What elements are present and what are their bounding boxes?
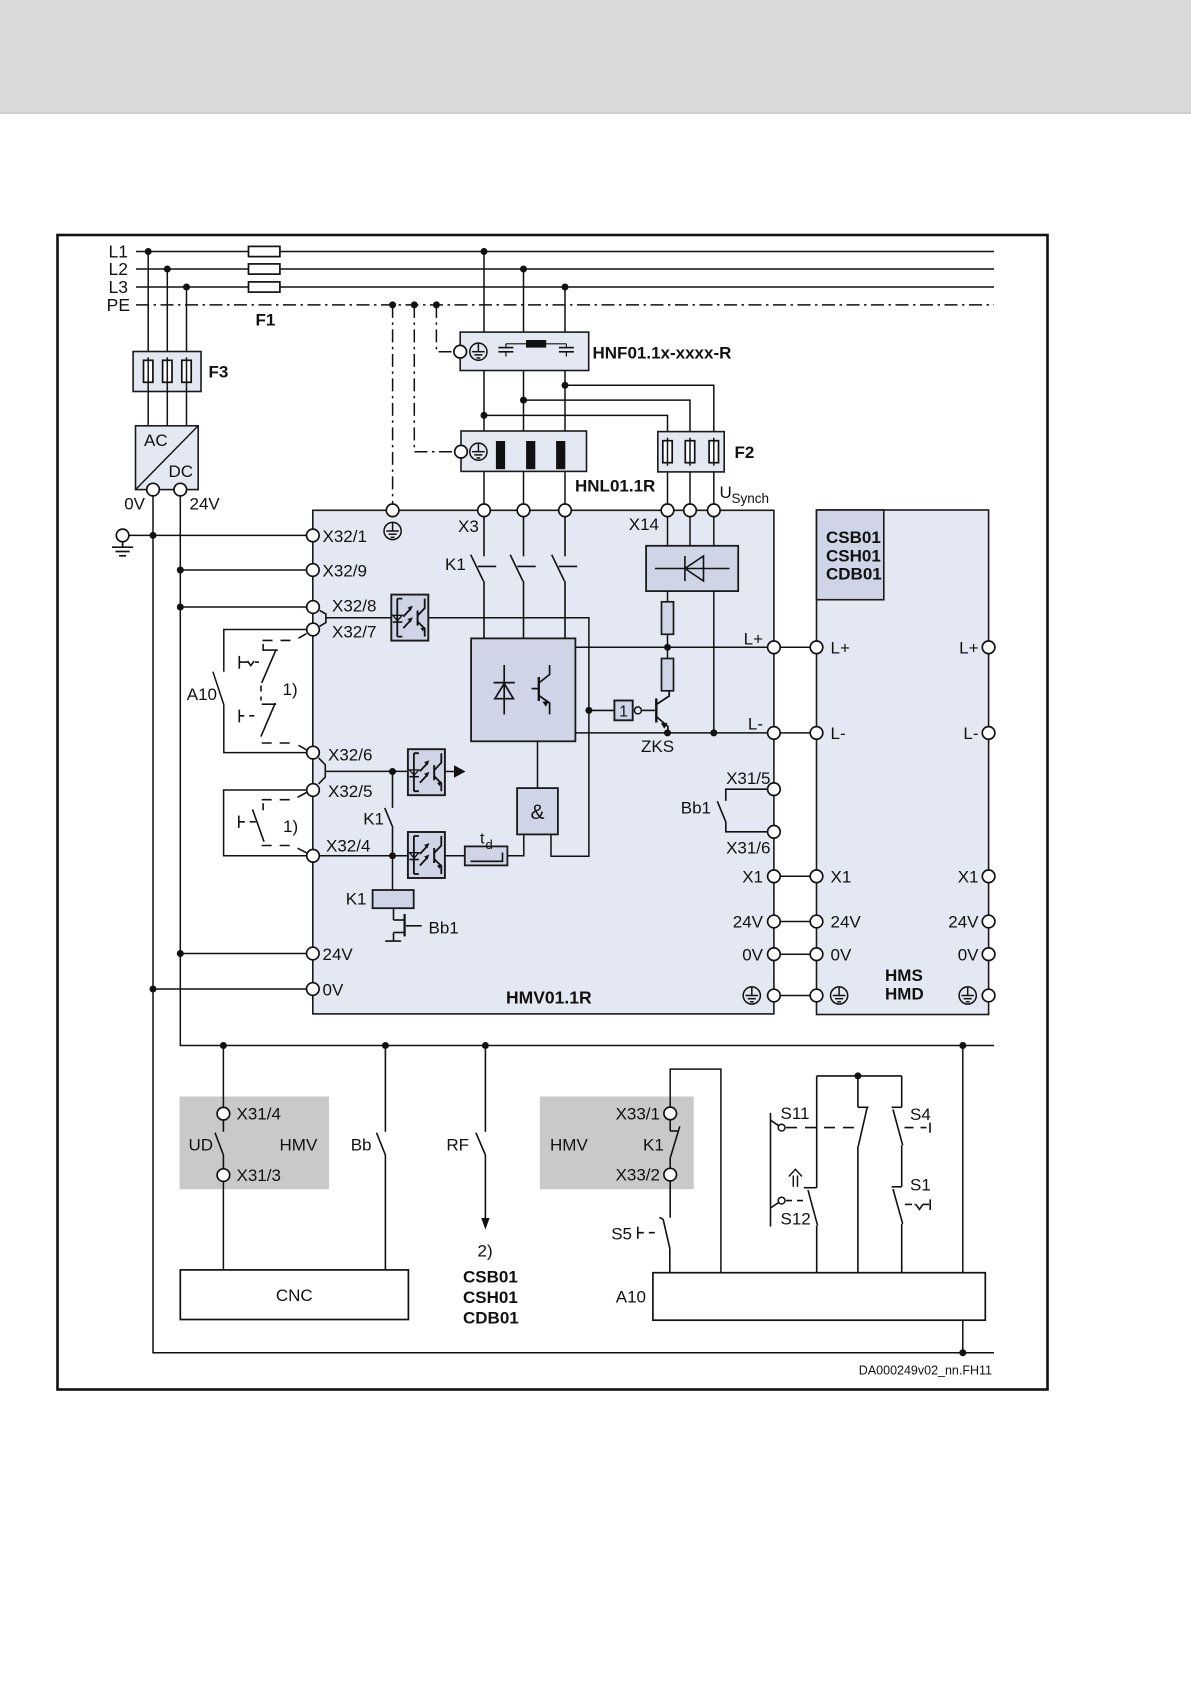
wire 24V rail — [180, 496, 994, 1046]
terminal X3-3 — [559, 504, 572, 517]
svg-text:X31/5: X31/5 — [726, 769, 770, 788]
svg-text:0V: 0V — [742, 946, 763, 965]
svg-text:X1: X1 — [831, 868, 852, 887]
wire merge to opto2 — [325, 770, 408, 772]
terminal X14-2 — [684, 504, 697, 517]
junction 0V wire — [150, 986, 157, 993]
svg-text:CDB01: CDB01 — [463, 1309, 519, 1328]
optocoupler input 3 — [408, 832, 445, 878]
junction 24V wire — [177, 950, 184, 957]
svg-text:L-: L- — [748, 715, 763, 734]
svg-text:X1: X1 — [742, 868, 763, 887]
junction L3-right — [562, 284, 569, 291]
svg-text:1: 1 — [619, 704, 628, 721]
terminal X32/1 — [307, 529, 320, 542]
wire L3 drop to F3 — [186, 287, 188, 358]
wire A10 to bottom rail — [962, 1320, 964, 1353]
chevron X32/8+7 merge — [320, 610, 326, 626]
svg-text:PE: PE — [107, 295, 130, 315]
svg-text:&: & — [530, 801, 544, 824]
optocoupler input 1 — [391, 595, 428, 641]
S11 dashed link — [786, 1127, 860, 1129]
fuse F1 pole 1 — [249, 246, 280, 256]
terminal 0V of AC/DC — [147, 483, 160, 496]
wire L1 rail — [136, 251, 994, 253]
junction L2-left — [164, 266, 171, 273]
junction rail Bb — [382, 1042, 389, 1049]
terminal chassis ground — [116, 529, 129, 542]
svg-text:CSH01: CSH01 — [826, 546, 881, 565]
svg-text:Bb1: Bb1 — [429, 919, 459, 938]
contact S1 — [892, 1187, 903, 1273]
svg-text:0V: 0V — [831, 946, 852, 965]
terminal 0V HMV right — [768, 948, 781, 961]
junction 24V X32/9 — [177, 567, 184, 574]
terminal X32/5 — [307, 784, 320, 797]
braking resistor chain: X14 rectifier box — [646, 546, 738, 591]
wire to gate 1 — [589, 709, 615, 711]
wire merge to opto1 — [326, 617, 391, 619]
junction PE-3 — [433, 301, 440, 308]
junction 24V X32/8 — [177, 604, 184, 611]
contactor K1 pole 3 — [552, 517, 578, 639]
terminal X32/8 — [307, 601, 320, 614]
svg-text:X32/7: X32/7 — [332, 623, 376, 642]
arrow up symbol — [789, 1169, 802, 1187]
junction S-group — [854, 1072, 861, 1079]
svg-text:CSB01: CSB01 — [463, 1268, 518, 1287]
resistor R-bottom — [662, 659, 674, 691]
wire L1 vertical to X3 — [483, 252, 485, 505]
svg-text:0V: 0V — [323, 981, 344, 1000]
terminal X14-1 — [661, 504, 674, 517]
PE symbol HMV right — [743, 987, 760, 1004]
middle contact (S11 linked) — [858, 1076, 869, 1273]
wire gate to ZKS base — [641, 709, 655, 711]
fuse block F3 — [133, 352, 201, 392]
svg-text:CDB01: CDB01 — [826, 565, 882, 584]
S5 actuation dashes — [637, 1227, 639, 1239]
diode in X14 box — [655, 556, 730, 581]
wires X14 terminals into box — [667, 517, 669, 546]
terminal 0V HMV left — [307, 983, 320, 996]
S12 dashed link — [786, 1200, 807, 1202]
wire PE drop to HNL (dash-dot) — [414, 305, 454, 452]
optocoupler input 2 — [408, 749, 445, 795]
svg-text:X32/1: X32/1 — [323, 527, 367, 546]
svg-text:S1: S1 — [910, 1176, 931, 1195]
svg-text:F1: F1 — [256, 311, 276, 330]
wire PE drop to HMV PE terminal (dash-dot) — [392, 305, 394, 504]
delay element td — [465, 846, 508, 865]
terminal X1 CSB left — [810, 870, 823, 883]
svg-text:L+: L+ — [831, 639, 850, 658]
terminal 24V HMV right — [768, 915, 781, 928]
transistor ZKS — [656, 691, 669, 733]
left branch vertical — [816, 1076, 818, 1188]
wire X32/8 — [180, 606, 306, 608]
svg-text:24V: 24V — [948, 913, 979, 932]
wire L2 vertical to X3 — [523, 269, 525, 504]
svg-text:HMS: HMS — [885, 966, 923, 985]
svg-text:K1: K1 — [643, 1136, 664, 1155]
svg-text:L+: L+ — [744, 630, 763, 649]
svg-text:CSB01: CSB01 — [826, 528, 881, 547]
svg-text:HMV: HMV — [280, 1136, 318, 1155]
drive controllers block CSB/CSH/CDB — [817, 510, 989, 1015]
filter internals — [498, 340, 574, 357]
PE symbol in HNL — [470, 443, 487, 460]
svg-text:K1: K1 — [346, 890, 367, 909]
terminal X32/4 — [307, 850, 320, 863]
junction rail UD — [220, 1042, 227, 1049]
svg-text:X32/8: X32/8 — [332, 597, 376, 616]
wire right loop — [962, 1046, 964, 1273]
junction tap L3 — [562, 382, 569, 389]
S11/S12 actuator bar — [771, 1113, 779, 1227]
junction K1 branch bottom — [389, 852, 396, 859]
svg-text:X32/9: X32/9 — [323, 562, 367, 581]
svg-text:ZKS: ZKS — [641, 737, 674, 756]
PE symbol below top terminal — [384, 522, 401, 539]
mains choke HNL01.1R — [461, 431, 587, 471]
junction tap L1 — [481, 412, 488, 419]
svg-text:HMV01.1R: HMV01.1R — [506, 988, 592, 1008]
svg-text:CNC: CNC — [276, 1286, 313, 1305]
svg-text:24V: 24V — [831, 913, 862, 932]
wire PE drop to HNF (dash-dot) — [436, 305, 453, 352]
chevron X32/6+5 merge — [319, 758, 326, 784]
svg-text:S5: S5 — [611, 1225, 632, 1244]
svg-text:L+: L+ — [959, 639, 978, 658]
PE symbol in HNF — [470, 343, 487, 360]
junction bottom rail — [959, 1349, 966, 1356]
terminal X33/1 — [664, 1107, 677, 1120]
wire PE rail (dash-dot) — [136, 304, 994, 306]
outer frame — [58, 235, 1048, 1390]
svg-text:X32/5: X32/5 — [328, 782, 372, 801]
svg-text:X32/4: X32/4 — [326, 837, 370, 856]
junction tap L2 — [520, 397, 527, 404]
AND gate — [517, 788, 558, 834]
svg-text:F3: F3 — [209, 363, 229, 382]
wire opto1 out to AND gate — [428, 618, 589, 857]
header box CSB01 CSH01 CDB01 — [817, 510, 884, 600]
Bb1 contact X31/5-X31/6 — [717, 789, 767, 832]
svg-text:X33/1: X33/1 — [616, 1105, 660, 1124]
junction L2-right — [520, 266, 527, 273]
junction rail right — [959, 1042, 966, 1049]
wire tap L2 to F2 — [524, 400, 691, 432]
safety switch group top wire — [817, 1075, 902, 1077]
transistor Bb1 (FET) — [385, 908, 422, 941]
svg-text:24V: 24V — [323, 945, 354, 964]
terminal X31/4 — [217, 1107, 230, 1120]
terminal X32/9 — [307, 564, 320, 577]
svg-text:2): 2) — [478, 1242, 493, 1261]
wire AND to rectifier — [537, 741, 539, 788]
wire F2 to X14 x3 — [667, 472, 669, 504]
svg-text:U: U — [720, 483, 732, 502]
terminal X3-1 — [478, 504, 491, 517]
svg-text:CSH01: CSH01 — [463, 1288, 518, 1307]
contactor K1 pole 1 — [471, 517, 497, 639]
svg-text:L3: L3 — [109, 277, 128, 297]
junction gate input — [585, 707, 592, 714]
svg-text:DC: DC — [169, 462, 194, 481]
right branch vertical — [901, 1076, 903, 1107]
terminal 0V CSB right — [982, 948, 995, 961]
svg-text:L-: L- — [831, 724, 846, 743]
svg-text:X1: X1 — [958, 868, 979, 887]
wire X31/3 to CNC — [222, 1181, 224, 1270]
junction K1 branch top — [389, 768, 396, 775]
terminal HNF PE — [454, 345, 467, 358]
diode symbol — [494, 665, 515, 714]
terminal 24V HMV left — [307, 947, 320, 960]
upper dashed limit switch 1 — [239, 634, 306, 701]
IGBT symbol — [532, 665, 550, 714]
contact dot S11 — [778, 1124, 785, 1131]
svg-text:HMD: HMD — [885, 985, 924, 1004]
wire L1 drop to F3 — [147, 252, 149, 359]
wire X32/4 to opto3 — [319, 855, 408, 857]
ground symbol — [112, 542, 133, 556]
junction PE-2 — [411, 301, 418, 308]
svg-text:DA000249v02_nn.FH11: DA000249v02_nn.FH11 — [859, 1364, 992, 1378]
terminal PE top — [386, 504, 399, 517]
top gray header band — [0, 0, 1191, 112]
wire L2 rail — [136, 268, 994, 270]
terminal PE CSB right — [982, 989, 995, 1002]
svg-text:A10: A10 — [187, 685, 217, 704]
opto2 output arrow — [445, 771, 455, 773]
svg-text:X31/4: X31/4 — [237, 1105, 281, 1124]
wire X14 right leg to L- — [713, 591, 715, 733]
contact S12 blade — [804, 1188, 818, 1273]
svg-text:24V: 24V — [190, 495, 221, 514]
svg-text:F2: F2 — [735, 443, 755, 462]
terminal X31/6 — [768, 826, 781, 839]
svg-text:1): 1) — [283, 680, 298, 699]
junction L+ tap — [664, 644, 671, 651]
lower dashed switch — [239, 793, 307, 853]
contact S4 — [892, 1107, 903, 1187]
svg-text:X3: X3 — [458, 517, 479, 536]
wire L3 rail — [136, 286, 994, 288]
svg-text:HNF01.1x-xxxx-R: HNF01.1x-xxxx-R — [593, 344, 732, 363]
contactor K1 pole 2 — [510, 517, 536, 639]
svg-text:UD: UD — [189, 1136, 214, 1155]
wire R-top to L+ — [667, 634, 669, 658]
connector wires HMV to CSB — [780, 647, 810, 995]
svg-text:S11: S11 — [781, 1104, 810, 1123]
box CNC — [180, 1270, 408, 1320]
contact dot S12 — [778, 1197, 785, 1204]
junction PE-1 — [389, 301, 396, 308]
svg-text:0V: 0V — [124, 495, 145, 514]
wire L+ rail — [575, 646, 767, 648]
terminal X31/3 — [217, 1169, 230, 1182]
junction ZKS emitter on L- — [664, 729, 671, 736]
terminal PE CSB left — [810, 989, 823, 1002]
wire td to AND gate — [507, 834, 523, 855]
svg-text:K1: K1 — [363, 810, 384, 829]
S1 dash-dot-v link — [905, 1199, 930, 1210]
svg-text:X33/2: X33/2 — [616, 1166, 660, 1185]
svg-text:X14: X14 — [629, 515, 659, 534]
svg-text:X32/6: X32/6 — [328, 746, 372, 765]
relay contact K1 (internal) — [385, 772, 393, 856]
terminal 24V CSB left — [810, 915, 823, 928]
svg-text:A10: A10 — [616, 1288, 646, 1307]
relay coil K1 — [392, 856, 394, 890]
A10 contact bracket upper — [213, 630, 307, 753]
terminal L+ HMV — [768, 641, 781, 654]
supply module HMV01.1R — [313, 510, 774, 1014]
svg-text:X31/3: X31/3 — [237, 1166, 281, 1185]
terminal X1 HMV — [768, 870, 781, 883]
choke bars — [496, 441, 505, 469]
wire 0V to HMV — [153, 988, 307, 990]
gray box UD/HMV — [180, 1097, 329, 1190]
junction L1-right — [481, 248, 488, 255]
svg-text:RF: RF — [446, 1136, 469, 1155]
terminal 0V CSB left — [810, 948, 823, 961]
junction 0V/ground — [150, 532, 157, 539]
terminal L- CSB left — [810, 727, 823, 740]
wire F3 to AC/DC x3 — [147, 385, 149, 426]
junction rail RF — [482, 1042, 489, 1049]
terminal X32/6 — [307, 746, 320, 759]
terminal X3-2 — [517, 504, 530, 517]
wire tap L3 to F2 — [565, 385, 714, 431]
terminal L+ CSB right — [982, 641, 995, 654]
wire rail to X31/4 — [222, 1046, 224, 1108]
terminal L- HMV — [768, 727, 781, 740]
wire opto3 to delay — [445, 855, 465, 857]
svg-text:S12: S12 — [781, 1210, 811, 1229]
wire X33/1 loop to A10 — [670, 1069, 721, 1273]
wire tap L1 to F2 — [484, 415, 668, 431]
PE symbol CSB right — [959, 987, 976, 1004]
upper dashed limit switch 2 — [239, 703, 306, 750]
logic gate 1 — [614, 701, 632, 721]
wire 0V rail — [153, 496, 994, 1353]
wire ground to X32/1 — [129, 534, 307, 536]
wire L2 drop to F3 — [166, 269, 168, 358]
box A10 bottom — [653, 1273, 985, 1321]
terminal PE HMV right — [768, 989, 781, 1002]
fuse block F2 — [658, 432, 724, 472]
terminal X14-3 — [708, 504, 721, 517]
resistor R-top — [667, 591, 669, 602]
terminal 24V CSB right — [982, 915, 995, 928]
wire X32/9 — [180, 569, 306, 571]
terminal HNL PE — [455, 445, 468, 458]
terminal X32/7 — [307, 623, 320, 636]
wire 24V to HMV — [180, 953, 306, 955]
A10 contact bracket lower — [224, 790, 307, 856]
svg-text:L2: L2 — [109, 259, 128, 279]
svg-text:HNL01.1R: HNL01.1R — [575, 477, 655, 496]
terminal X33/2 — [664, 1168, 677, 1181]
svg-text:0V: 0V — [958, 946, 979, 965]
contact K1 bottom — [670, 1120, 680, 1169]
mains filter HNF01 — [460, 332, 589, 370]
switch S5 — [669, 1181, 671, 1218]
svg-text:K1: K1 — [445, 555, 466, 574]
fuse F1 pole 2 — [249, 264, 280, 274]
svg-text:d: d — [486, 837, 493, 852]
terminal L- CSB right — [982, 727, 995, 740]
switch UD — [215, 1120, 223, 1169]
svg-text:S4: S4 — [910, 1105, 931, 1124]
power supply AC/DC — [136, 426, 199, 490]
svg-text:HMV: HMV — [550, 1136, 588, 1155]
wire L3 vertical to X3 — [564, 287, 566, 504]
svg-text:X31/6: X31/6 — [726, 839, 770, 858]
terminal 24V of AC/DC — [174, 483, 187, 496]
terminal L+ CSB left — [810, 641, 823, 654]
svg-text:Bb1: Bb1 — [681, 799, 711, 818]
junction L1-left — [145, 248, 152, 255]
terminal X1 CSB right — [982, 870, 995, 883]
svg-text:24V: 24V — [733, 913, 764, 932]
svg-text:L-: L- — [963, 724, 978, 743]
PE symbol CSB left — [831, 987, 848, 1004]
junction X14/L- — [710, 729, 717, 736]
terminal X31/5 — [768, 783, 781, 796]
svg-text:AC: AC — [144, 431, 168, 450]
svg-text:Bb: Bb — [351, 1136, 372, 1155]
svg-text:1): 1) — [283, 817, 298, 836]
S4 dashed link — [905, 1127, 927, 1129]
wire L- rail — [575, 732, 767, 734]
gray box HMV/K1 — [540, 1097, 694, 1190]
fuse F1 pole 3 — [249, 282, 280, 292]
svg-text:Synch: Synch — [732, 491, 770, 506]
svg-text:t: t — [480, 831, 485, 848]
rectifier/inverter block — [471, 638, 575, 741]
junction L3-left — [183, 284, 190, 291]
